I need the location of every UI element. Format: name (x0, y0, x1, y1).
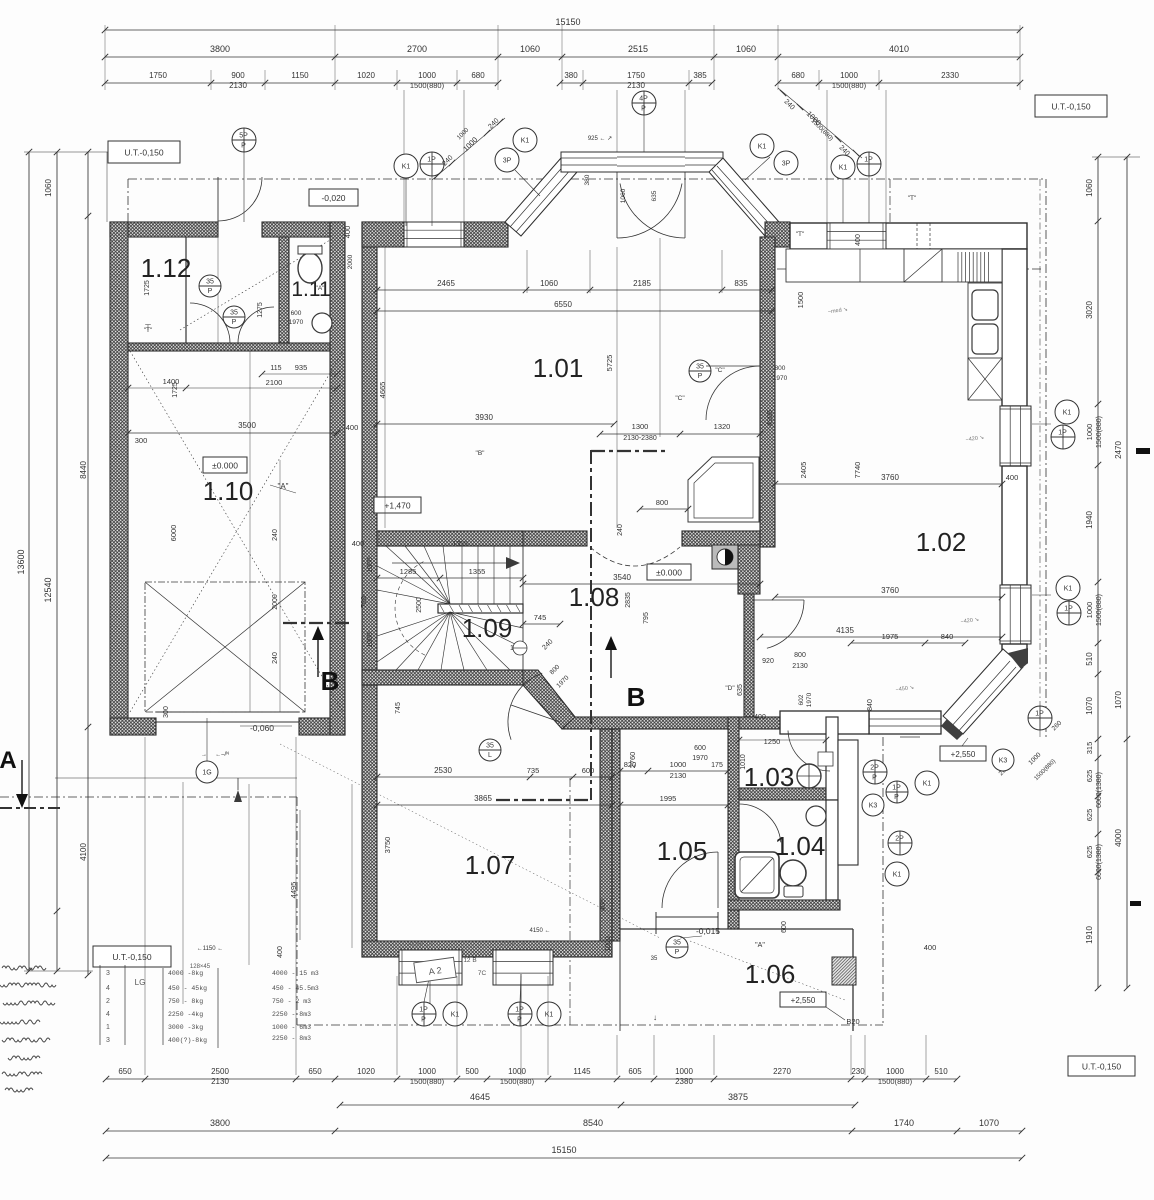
svg-text:605: 605 (628, 1067, 642, 1076)
svg-text:4P: 4P (639, 96, 648, 103)
svg-text:1P: 1P (419, 1007, 428, 1014)
south wall under 1.02 with window (869, 711, 941, 734)
small diag labels near top-left bay (432, 118, 505, 180)
svg-text:≈ΔΣτο ↔ᴬ: ≈ΔΣτο ↔ᴬ (500, 940, 525, 948)
svg-text:-0,060: -0,060 (250, 723, 274, 733)
svg-text:1.04: 1.04 (775, 831, 826, 861)
svg-text:1070: 1070 (1114, 691, 1123, 709)
svg-text:2130: 2130 (627, 81, 645, 90)
svg-text:35: 35 (230, 310, 238, 317)
svg-text:A 2: A 2 (428, 965, 442, 977)
svg-text:1P: 1P (1064, 606, 1073, 613)
svg-text:1P: 1P (427, 157, 436, 164)
svg-text:3540: 3540 (613, 573, 631, 582)
svg-text:2405: 2405 (799, 462, 808, 479)
svg-text:4000: 4000 (1114, 829, 1123, 847)
svg-text:1000: 1000 (605, 936, 612, 952)
1.05 walls (612, 729, 620, 941)
1.03 door arc (788, 731, 830, 772)
svg-text:745: 745 (534, 613, 547, 622)
svg-text:P: P (421, 1016, 426, 1023)
svg-text:←–/ᴺ: ←–/ᴺ (215, 751, 229, 758)
1.04 walls (826, 800, 838, 900)
svg-text:1060: 1060 (520, 44, 540, 54)
interior wall 1.12/1.10 (128, 343, 330, 351)
svg-text:35: 35 (673, 940, 681, 947)
svg-text:1000: 1000 (1085, 424, 1094, 441)
small basin 1.04 top (806, 806, 826, 826)
fridge lines top right (957, 252, 959, 282)
svg-text:4: 4 (106, 985, 110, 992)
svg-text:"A": "A" (755, 942, 765, 949)
svg-text:3: 3 (106, 970, 110, 977)
svg-text:P: P (232, 319, 237, 326)
svg-text:2P: 2P (895, 836, 904, 843)
svg-text:600: 600 (291, 310, 302, 317)
svg-text:4000 -8kg: 4000 -8kg (168, 970, 203, 977)
svg-text:K1: K1 (893, 872, 902, 879)
svg-text:920: 920 (762, 658, 774, 665)
1.07 walls (600, 729, 612, 957)
svg-text:K1: K1 (758, 144, 767, 151)
svg-text:5P: 5P (239, 133, 248, 140)
svg-text:P: P (698, 373, 703, 380)
svg-text:4645: 4645 (470, 1092, 490, 1102)
svg-text:2250 - 8m3: 2250 - 8m3 (272, 1011, 311, 1018)
svg-text:2130: 2130 (229, 81, 247, 90)
entrance double door arcs (617, 184, 682, 239)
svg-text:4000 - 15 m3: 4000 - 15 m3 (272, 970, 319, 977)
svg-text:1000: 1000 (886, 1067, 904, 1076)
bottom window sills bubbles lines (429, 974, 431, 1004)
svg-text:240: 240 (617, 524, 624, 536)
svg-text:400: 400 (343, 226, 352, 239)
svg-text:A: A (0, 747, 17, 774)
svg-text:3760: 3760 (881, 586, 899, 595)
svg-text:1P: 1P (1058, 430, 1067, 437)
svg-text:4905: 4905 (767, 410, 774, 426)
svg-text:+2,550: +2,550 (791, 996, 816, 1005)
svg-text:835: 835 (734, 279, 748, 288)
svg-text:1750: 1750 (149, 71, 167, 80)
svg-text:P: P (894, 794, 899, 801)
svg-text:4495: 4495 (289, 882, 298, 899)
svg-text:2: 2 (106, 998, 110, 1005)
svg-text:"C": "C" (715, 367, 725, 374)
svg-text:2250 - 8m3: 2250 - 8m3 (272, 1035, 311, 1042)
svg-text:3P: 3P (503, 158, 512, 165)
door diag 1.07 (508, 673, 542, 740)
svg-text:700: 700 (361, 596, 368, 608)
svg-text:3800: 3800 (210, 44, 230, 54)
svg-text:1000: 1000 (508, 1067, 526, 1076)
svg-text:1020: 1020 (357, 1067, 375, 1076)
svg-text:1725: 1725 (172, 382, 179, 398)
svg-text:385: 385 (693, 71, 707, 80)
svg-text:1275: 1275 (257, 302, 264, 318)
svg-text:2700: 2700 (407, 44, 427, 54)
svg-text:12 B: 12 B (463, 957, 476, 964)
east window 2 (1000, 585, 1031, 644)
svg-text:1285: 1285 (400, 567, 417, 576)
svg-text:795: 795 (643, 612, 650, 624)
svg-text:2500: 2500 (211, 1067, 229, 1076)
svg-text:K1: K1 (839, 165, 848, 172)
interior doors left block (190, 303, 230, 343)
1G bubble (196, 761, 218, 783)
stairs top wall (377, 531, 523, 546)
svg-text:1.05: 1.05 (657, 836, 708, 866)
svg-text:P: P (241, 142, 246, 149)
svg-text:3500: 3500 (238, 421, 256, 430)
svg-text:2500: 2500 (416, 597, 423, 613)
diagonal wall stairs->hall (523, 670, 575, 729)
svg-text:P: P (675, 949, 680, 956)
interior dims 1.08 (523, 583, 760, 585)
svg-text:1060: 1060 (1085, 179, 1094, 197)
svg-text:230: 230 (851, 1067, 865, 1076)
svg-text:6000(1380): 6000(1380) (1096, 772, 1103, 808)
1.05 door arc (662, 852, 718, 908)
svg-text:800: 800 (775, 365, 786, 372)
svg-text:175: 175 (711, 762, 723, 769)
svg-text:35: 35 (206, 279, 214, 286)
bubbles interior (199, 275, 221, 297)
handwriting table (99, 965, 101, 1045)
svg-text:680: 680 (471, 71, 485, 80)
svg-text:1060: 1060 (736, 44, 756, 54)
svg-text:625: 625 (1085, 770, 1094, 783)
svg-text:650: 650 (308, 1067, 322, 1076)
svg-text:4010: 4010 (889, 44, 909, 54)
svg-text:400: 400 (855, 234, 862, 246)
svg-text:745: 745 (395, 702, 402, 714)
svg-text:1000: 1000 (840, 71, 858, 80)
svg-text:1500(880): 1500(880) (832, 81, 867, 90)
svg-text:2530: 2530 (434, 766, 452, 775)
svg-text:1250: 1250 (764, 737, 781, 746)
svg-text:1P: 1P (515, 1007, 524, 1014)
counter right with sinks (968, 283, 1002, 399)
svg-text:2270: 2270 (773, 1067, 791, 1076)
svg-text:1.07: 1.07 (465, 850, 516, 880)
svg-text:800: 800 (794, 652, 806, 659)
svg-text:1060: 1060 (540, 279, 558, 288)
garage X parking box (145, 582, 305, 712)
svg-text:1300: 1300 (632, 422, 649, 431)
fixtures 1.03 (797, 764, 821, 788)
partitions 1.12 / 1.11 (185, 237, 187, 343)
svg-text:K1: K1 (923, 781, 932, 788)
svg-text:→: → (201, 752, 207, 758)
svg-text:600: 600 (781, 921, 788, 933)
svg-text:1500(880): 1500(880) (410, 1077, 445, 1086)
svg-text:1.02: 1.02 (916, 527, 967, 557)
handwriting bottom left (0, 966, 56, 1092)
chimney block (712, 545, 738, 569)
svg-text:3930: 3930 (475, 413, 493, 422)
bubbles east (1055, 400, 1079, 424)
main house west wall (362, 222, 377, 957)
svg-text:1: 1 (106, 1024, 110, 1031)
bubbles right cluster (863, 760, 887, 784)
svg-text:1500(880): 1500(880) (878, 1077, 913, 1086)
svg-text:4665: 4665 (378, 382, 387, 399)
1.03 walls (739, 788, 833, 800)
svg-text:300: 300 (135, 436, 148, 445)
svg-text:935: 935 (295, 363, 308, 372)
stairs bottom wall (362, 670, 523, 685)
svg-text:6550: 6550 (554, 300, 572, 309)
svg-text:1355: 1355 (469, 567, 486, 576)
svg-text:1020: 1020 (357, 71, 375, 80)
svg-text:15150: 15150 (555, 17, 580, 27)
svg-text:1355: 1355 (452, 541, 468, 548)
svg-text:6000: 6000 (169, 525, 178, 542)
svg-text:4100: 4100 (79, 843, 88, 861)
svg-text:2130: 2130 (211, 1077, 229, 1086)
svg-text:7C: 7C (478, 970, 487, 977)
svg-text:3865: 3865 (474, 794, 492, 803)
1.02 top wall (790, 223, 1027, 249)
door top-left arc (217, 177, 219, 222)
svg-text:500: 500 (465, 1067, 479, 1076)
svg-text:2130-2380: 2130-2380 (623, 435, 657, 442)
svg-text:735: 735 (527, 766, 540, 775)
svg-text:1.10: 1.10 (203, 476, 254, 506)
svg-text:35: 35 (651, 956, 658, 962)
svg-text:1000: 1000 (1085, 602, 1094, 619)
toilet 1.11 (298, 253, 322, 283)
svg-text:400: 400 (600, 899, 607, 911)
svg-text:1.01: 1.01 (533, 353, 584, 383)
svg-text:K1: K1 (545, 1012, 554, 1019)
svg-text:1500(880): 1500(880) (500, 1077, 535, 1086)
svg-text:+2,550: +2,550 (951, 750, 976, 759)
svg-text:750 - 2 m3: 750 - 2 m3 (272, 998, 311, 1005)
svg-text:-0,015: -0,015 (696, 926, 720, 936)
svg-text:602: 602 (798, 694, 805, 705)
svg-text:3875: 3875 (728, 1092, 748, 1102)
entrance bay top band with door (561, 152, 723, 172)
svg-text:3020: 3020 (1085, 301, 1094, 319)
svg-text:840: 840 (941, 632, 954, 641)
garage witness (249, 351, 251, 712)
svg-text:1G: 1G (202, 770, 211, 777)
svg-text:925 ← ↗: 925 ← ↗ (588, 136, 612, 142)
svg-text:"T": "T" (796, 231, 805, 238)
svg-text:1995: 1995 (660, 794, 677, 803)
svg-text:1000 - 6m3: 1000 - 6m3 (272, 1024, 311, 1031)
stairs 1.09 (376, 546, 378, 670)
svg-text:LG: LG (135, 978, 146, 987)
fireplace corner 1.01 (688, 457, 759, 522)
svg-text:K1: K1 (1064, 586, 1073, 593)
svg-text:380: 380 (564, 71, 578, 80)
svg-text:±0.000: ±0.000 (656, 567, 682, 577)
svg-text:625: 625 (1085, 809, 1094, 822)
left block outer walls (110, 222, 218, 237)
svg-text:1000: 1000 (675, 1067, 693, 1076)
east window 1 (1000, 406, 1031, 466)
svg-text:650: 650 (118, 1067, 132, 1076)
dash-dot roof outline (128, 178, 1046, 180)
svg-text:380: 380 (584, 174, 591, 185)
svg-text:1750: 1750 (627, 71, 645, 80)
svg-text:35: 35 (486, 743, 494, 750)
svg-text:1.08: 1.08 (569, 582, 620, 612)
svg-text:K1: K1 (451, 1012, 460, 1019)
svg-text:2P: 2P (870, 765, 879, 772)
section B middle (590, 450, 592, 800)
svg-text:1.03: 1.03 (744, 762, 795, 792)
svg-text:3000 -3kg: 3000 -3kg (168, 1024, 203, 1031)
wall right of chimney down (738, 545, 760, 594)
svg-text:2250 -4kg: 2250 -4kg (168, 1011, 203, 1018)
svg-text:U.T.-0,150: U.T.-0,150 (112, 952, 151, 962)
svg-text:240: 240 (272, 652, 279, 664)
svg-text:"C": "C" (675, 395, 685, 402)
svg-text:"A": "A" (277, 482, 288, 491)
svg-text:±0.000: ±0.000 (212, 460, 238, 470)
svg-text:1740: 1740 (894, 1118, 914, 1128)
1.01 top wall (362, 222, 404, 247)
svg-text:1970: 1970 (692, 755, 708, 762)
svg-text:4: 4 (106, 1011, 110, 1018)
witness lines (526, 250, 528, 293)
svg-text:315: 315 (1085, 742, 1094, 755)
svg-text:450 - 45kg: 450 - 45kg (168, 985, 207, 992)
svg-text:U.T.-0,150: U.T.-0,150 (1082, 1061, 1121, 1071)
svg-text:1910: 1910 (1085, 926, 1094, 944)
svg-text:400: 400 (924, 943, 937, 952)
svg-text:K3: K3 (999, 758, 1008, 765)
basin 1.11 (312, 313, 332, 333)
svg-text:1320: 1320 (714, 422, 731, 431)
svg-text:1060: 1060 (620, 188, 627, 203)
svg-text:1000: 1000 (418, 71, 436, 80)
svg-text:1P: 1P (892, 785, 901, 792)
wall between 1.01 and 1.02 (760, 237, 775, 547)
svg-text:1940: 1940 (1085, 511, 1094, 529)
bubbles bottom (412, 1002, 436, 1026)
svg-text:4135: 4135 (836, 626, 854, 635)
tilted A2 box (414, 957, 456, 982)
svg-text:600: 600 (694, 745, 706, 752)
svg-text:128×45: 128×45 (190, 964, 211, 970)
svg-text:1000: 1000 (367, 632, 374, 648)
porch 1.06 (620, 928, 853, 930)
svg-text:1010: 1010 (740, 754, 747, 770)
dashed swing arc 1.08/1.01 (590, 547, 680, 566)
lower unit (968, 358, 1002, 400)
top dimension chains (105, 29, 1020, 31)
svg-text:3P: 3P (782, 161, 791, 168)
svg-text:635: 635 (651, 190, 658, 201)
section A diag dotted to 1.12 (180, 240, 330, 330)
svg-text:2470: 2470 (1114, 441, 1123, 459)
svg-text:400: 400 (352, 539, 365, 548)
svg-text:U.T.-0,150: U.T.-0,150 (1051, 101, 1090, 111)
svg-text:450 - 45.5m3: 450 - 45.5m3 (272, 985, 319, 992)
svg-text:3760: 3760 (881, 473, 899, 482)
svg-text:K3: K3 (869, 803, 878, 810)
right dimension chains (1097, 157, 1099, 988)
svg-text:2130: 2130 (670, 771, 687, 780)
svg-text:1500: 1500 (796, 292, 805, 309)
svg-text:300: 300 (163, 706, 170, 718)
svg-text:800: 800 (656, 498, 669, 507)
annotation boxes (309, 189, 358, 206)
door 1.02 lower (767, 600, 804, 648)
svg-text:240: 240 (272, 529, 279, 541)
stairs direction arrow (392, 562, 508, 564)
svg-text:1070: 1070 (979, 1118, 999, 1128)
svg-text:B20: B20 (846, 1017, 859, 1026)
svg-text:1500(880): 1500(880) (1096, 416, 1103, 448)
svg-text:P: P (517, 1016, 522, 1023)
svg-text:8540: 8540 (583, 1118, 603, 1128)
svg-text:7740: 7740 (853, 462, 862, 479)
svg-text:P: P (208, 288, 213, 295)
kitchen counter top (786, 249, 1002, 282)
svg-text:35: 35 (696, 364, 704, 371)
svg-text:K1: K1 (521, 138, 530, 145)
svg-text:1970: 1970 (289, 319, 304, 326)
SE diagonal bay window (943, 649, 1023, 734)
svg-text:←1150 ←: ←1150 ← (197, 946, 224, 952)
svg-text:1500(880): 1500(880) (1096, 594, 1103, 626)
svg-text:B: B (321, 666, 340, 696)
entrance bay diagonal left window (505, 158, 577, 236)
svg-text:3800: 3800 (210, 1118, 230, 1128)
interior dims 1.01 (377, 289, 772, 291)
toilet 1.04 (780, 860, 806, 886)
svg-text:"B": "B" (476, 450, 486, 457)
svg-text:"D": "D" (725, 685, 735, 692)
svg-text:1150: 1150 (291, 71, 309, 80)
svg-text:2465: 2465 (437, 279, 455, 288)
svg-text:1970: 1970 (806, 692, 813, 707)
svg-text:2330: 2330 (941, 71, 959, 80)
svg-text:4150 ←: 4150 ← (529, 928, 550, 934)
svg-text:"T": "T" (908, 195, 917, 202)
svg-text:1P: 1P (864, 157, 873, 164)
svg-text:1P: 1P (1035, 711, 1044, 718)
svg-text:1145: 1145 (573, 1067, 591, 1076)
svg-text:1070: 1070 (1085, 697, 1094, 715)
svg-text:12540: 12540 (43, 577, 53, 602)
svg-text:6000(1380): 6000(1380) (1096, 844, 1103, 880)
svg-text:2130: 2130 (792, 663, 808, 670)
fixtures 1.04: shower (735, 852, 779, 898)
svg-text:P: P (872, 774, 877, 781)
svg-text:8440: 8440 (79, 461, 88, 479)
svg-text:"A": "A" (316, 285, 326, 292)
svg-text:1.12: 1.12 (141, 253, 192, 283)
svg-text:13600: 13600 (16, 549, 26, 574)
svg-text:2100: 2100 (266, 378, 283, 387)
svg-text:L: L (488, 752, 492, 759)
svg-text:900: 900 (231, 71, 245, 80)
svg-text:+1,470: +1,470 (384, 500, 411, 510)
svg-text:600: 600 (582, 766, 595, 775)
porch steps SE (900, 736, 920, 738)
svg-text:1970: 1970 (773, 375, 788, 382)
svg-text:1000: 1000 (670, 760, 687, 769)
svg-text:400: 400 (1006, 473, 1019, 482)
svg-text:U.T.-0,150: U.T.-0,150 (124, 147, 163, 157)
